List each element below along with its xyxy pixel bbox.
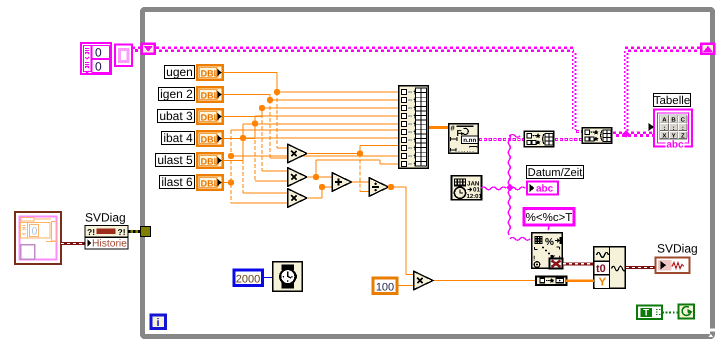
control ibat 4 DBL terminal: [197, 131, 222, 145]
SVDiag property node label: [85, 211, 126, 225]
wire T to loop condition: [662, 312, 679, 314]
junction igen2: [267, 97, 273, 103]
svg-text:?!: ?!: [87, 227, 95, 237]
svg-text:2000: 2000: [236, 274, 260, 286]
svg-text::: :: [682, 125, 684, 132]
wire build waveform to chart: [626, 266, 655, 269]
svg-text:DBL: DBL: [201, 113, 220, 123]
wire build array to number-to-string: [429, 126, 449, 129]
svg-text:igen 2: igen 2: [160, 87, 193, 101]
junction ibat4: [252, 120, 258, 126]
wire 100 to multiply: [397, 285, 414, 287]
array constant (init 0 0): [81, 43, 111, 74]
svg-text:Historie: Historie: [92, 239, 127, 250]
svg-text:DBL: DBL: [201, 157, 220, 167]
right shift register: [700, 43, 716, 56]
wire shift register to array nodes (2D string array): [156, 48, 701, 132]
svg-text:SVDiag: SVDiag: [85, 211, 126, 225]
chart history constant: [15, 212, 61, 264]
svg-text:Datum/Zeit: Datum/Zeit: [528, 167, 584, 179]
control ilast 6 DBL terminal: [197, 175, 222, 189]
date-time string to timestamp node: [532, 233, 563, 269]
table indicator terminal: [649, 110, 693, 151]
wire number-to-string to build-row array (1D string array): [479, 138, 524, 141]
wire ibat4 to build array in4 and multiply2: [224, 116, 398, 181]
svg-text:DBL: DBL: [201, 91, 220, 101]
junction M1 output: [357, 150, 363, 156]
string indicator Datum/Zeit: [527, 182, 558, 195]
svg-text:abc: abc: [536, 184, 554, 195]
boolean constant T: [637, 306, 662, 320]
divide node: [369, 178, 388, 196]
svg-text:abc: abc: [666, 140, 684, 151]
svg-text:%<%c>T: %<%c>T: [526, 212, 573, 224]
wire add to divide: [352, 181, 369, 183]
svg-text:t0: t0: [596, 263, 606, 275]
multiply by 100 node: [414, 271, 433, 289]
junction table wire: [622, 130, 629, 137]
wire table to indicator and shift register: [613, 133, 654, 136]
control igen 2 label: [159, 87, 195, 101]
svg-text:0: 0: [95, 60, 102, 74]
wire M2 output to add node and build array in10: [307, 160, 398, 177]
svg-text:n.nn: n.nn: [463, 137, 476, 144]
build array node B (prepend timestamp): [524, 131, 554, 147]
control ubat 3 DBL terminal: [197, 109, 222, 123]
bundle cluster constant: [115, 45, 132, 67]
svg-text:SVDiag: SVDiag: [657, 242, 698, 256]
wire M3 output to add node: [307, 187, 332, 198]
build array scalar-to-array node: [536, 276, 567, 285]
wire date-time string distribution: [481, 134, 530, 240]
wire M1 output to build array in8 and divide: [307, 146, 398, 192]
wire timestamp to build waveform t0: [563, 262, 594, 265]
control ubat 3 label: [158, 109, 195, 123]
svg-text:12:01: 12:01: [467, 193, 483, 200]
wait until next ms multiple node: [273, 262, 303, 292]
junction ulast5: [240, 135, 246, 141]
wire 2000 to wait: [263, 277, 273, 279]
svg-text:ulast 5: ulast 5: [157, 153, 193, 167]
SVDiag property node (Historie): [85, 226, 128, 250]
junction ilast6 branch: [228, 153, 234, 186]
junction M3 output: [319, 184, 325, 190]
junction ugen: [274, 89, 280, 95]
control ibat 4 label: [162, 131, 195, 145]
wire igen2 to build array in2 and multiply1: [224, 95, 398, 159]
svg-text:0: 0: [95, 46, 102, 60]
svg-text:!: !: [533, 256, 535, 263]
svg-text:Y: Y: [599, 277, 607, 289]
control ilast 6 label: [160, 175, 195, 189]
wire array to build waveform Y: [566, 279, 594, 282]
svg-text:ubat 3: ubat 3: [159, 109, 193, 123]
iteration terminal i: [151, 315, 166, 329]
svg-text:?!: ?!: [118, 227, 126, 237]
svg-text:ugen: ugen: [166, 65, 193, 79]
svg-text:A: A: [662, 117, 667, 124]
svg-text:i: i: [156, 317, 159, 329]
svg-text:DBL: DBL: [201, 179, 220, 189]
svg-text:F: F: [457, 128, 462, 138]
wire divide output to multiply-by-100: [389, 187, 413, 275]
build array node C (append row to table): [582, 128, 612, 144]
svg-text:Tabelle: Tabelle: [654, 95, 690, 107]
build waveform node: [594, 247, 626, 289]
multiply node M2: [288, 168, 307, 186]
control ulast 5 label: [156, 153, 195, 167]
svg-text:01: 01: [473, 187, 480, 194]
numeric constant 100: [373, 278, 397, 294]
wire ugen to build array in1 and multiply1: [224, 73, 398, 149]
svg-text:ilast 6: ilast 6: [161, 175, 193, 189]
numeric constant 2000: [234, 270, 263, 286]
svg-text:0: 0: [32, 226, 38, 238]
svg-text:T: T: [643, 308, 649, 319]
control igen 2 DBL terminal: [197, 87, 222, 101]
junction date-time string: [506, 184, 513, 191]
svg-text:C: C: [681, 117, 686, 124]
svg-text:ibat 4: ibat 4: [163, 131, 193, 145]
svg-text:%: %: [545, 237, 554, 248]
SVDiag chart label: [657, 242, 698, 256]
svg-text:Y: Y: [672, 132, 676, 139]
wire ulast5 to build array in5 and multiply3: [224, 124, 398, 193]
Datum/Zeit label: [527, 166, 584, 180]
svg-text:B: B: [671, 117, 676, 124]
loop tunnel: [141, 227, 151, 237]
control ugen label: [165, 65, 195, 79]
svg-text:100: 100: [376, 282, 394, 294]
add node: [332, 173, 351, 191]
multiply node M3: [288, 189, 307, 207]
SVDiag waveform chart terminal: [656, 258, 690, 274]
multiply node M1: [288, 144, 307, 162]
while loop border: [143, 10, 716, 337]
control ulast 5 DBL terminal: [197, 153, 222, 167]
wire cluster const to left shift register: [132, 48, 141, 51]
svg-text:DBL: DBL: [201, 69, 220, 79]
svg-text:X: X: [662, 132, 666, 139]
svg-text:DBL: DBL: [201, 135, 220, 145]
Tabelle label: [654, 94, 691, 108]
svg-text::: :: [673, 125, 675, 132]
svg-text:Z: Z: [681, 132, 685, 139]
wire multiplied value to build-array-scalar: [433, 280, 536, 282]
build array node (10 inputs): [399, 86, 429, 169]
junction divide output: [388, 184, 394, 190]
junction M2 output: [313, 174, 319, 180]
format string constant %<%c>T: [524, 209, 574, 226]
format date-time string node: [452, 176, 483, 200]
junction ubat3: [259, 105, 265, 111]
wire row to append node (1D string array): [555, 138, 583, 141]
control ugen DBL terminal: [197, 65, 222, 79]
left shift register: [141, 43, 157, 56]
wire ilast6 to build array in6 and multiply3: [224, 130, 398, 203]
wire ubat3 to build array in3 and multiply2: [224, 108, 398, 171]
svg-text::: :: [663, 125, 665, 132]
number to fractional string node: [449, 124, 479, 154]
loop condition terminal: [679, 305, 695, 319]
wire format constant to scan node: [548, 225, 549, 230]
wire history constant to property node: [61, 242, 85, 245]
wire property node to tunnel: [128, 230, 141, 233]
